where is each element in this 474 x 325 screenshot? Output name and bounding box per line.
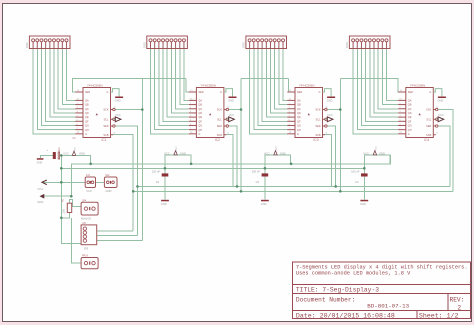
svg-text:100 nF: 100 nF	[152, 170, 161, 174]
svg-text:QE: QE	[85, 116, 89, 119]
svg-text:IC1: IC1	[102, 138, 107, 142]
svg-text:5: 5	[369, 46, 370, 48]
supply symbol VCC at IC3	[325, 113, 333, 122]
svg-text:9: 9	[183, 46, 184, 48]
wire IC2 SER feed	[142, 78, 186, 80]
svg-text:BD-801-07-13: BD-801-07-13	[367, 303, 409, 310]
solder jumper SJ1 VCC	[85, 174, 95, 193]
resistor R1 22k	[61, 198, 71, 213]
svg-text:QC: QC	[408, 108, 412, 111]
svg-text:1: 1	[352, 46, 353, 48]
svg-text:14: 14	[77, 90, 79, 92]
svg-text:8: 8	[278, 46, 279, 48]
wire I2C pin1	[97, 230, 134, 232]
svg-text:ANALOG: ANALOG	[81, 217, 91, 220]
shift register IC1 74HC595N	[75, 83, 115, 142]
svg-text:SCL: SCL	[217, 118, 222, 121]
svg-text:SER: SER	[217, 125, 222, 128]
svg-text:SCK: SCK	[103, 109, 108, 112]
svg-text:QD: QD	[408, 112, 412, 115]
svg-text:SER: SER	[198, 91, 203, 94]
svg-text:7: 7	[175, 46, 176, 48]
supply symbol VCC block4	[363, 146, 385, 156]
svg-text:G: G	[220, 91, 222, 94]
wire power hookup block3	[265, 155, 291, 168]
supply symbol VCC block3	[264, 146, 286, 156]
off-page arrow GND	[37, 194, 44, 204]
title block	[293, 262, 471, 319]
svg-text:IC3: IC3	[314, 138, 319, 142]
ground symbol GND under C3	[261, 200, 269, 206]
svg-text:QH: QH	[297, 129, 301, 132]
svg-text:9: 9	[66, 46, 67, 48]
svg-text:GND: GND	[106, 189, 112, 193]
off-page arrow VCC	[38, 180, 47, 191]
svg-text:SCL: SCL	[104, 118, 109, 121]
svg-text:I2C: I2C	[83, 222, 87, 225]
jumper PP14	[81, 255, 98, 269]
svg-text:3: 3	[257, 46, 258, 48]
wire I2C pin3	[97, 240, 143, 242]
svg-text:G: G	[107, 91, 109, 94]
connector SV3 pin header	[242, 36, 287, 49]
svg-text:GND: GND	[180, 151, 186, 155]
svg-text:3: 3	[158, 46, 159, 48]
supply symbol VCC block2	[164, 146, 186, 156]
svg-text:VCC: VCC	[276, 146, 278, 151]
ground symbol GND at C1	[37, 158, 44, 164]
svg-text:6: 6	[373, 46, 374, 48]
svg-text:JP4: JP4	[82, 199, 87, 202]
wire R1 top to JP4	[70, 200, 82, 207]
svg-text:QG: QG	[198, 125, 202, 128]
svg-text:3: 3	[361, 46, 362, 48]
svg-text:+: +	[46, 148, 48, 152]
wire IC1 SCK out	[115, 109, 142, 111]
svg-text:QA: QA	[408, 100, 412, 103]
svg-text:QB: QB	[297, 104, 301, 107]
svg-text:SER: SER	[315, 125, 320, 128]
svg-text:SER: SER	[297, 91, 302, 94]
svg-text:SCK: SCK	[426, 109, 431, 112]
wire C1 to GND	[40, 155, 53, 158]
svg-text:SER: SER	[408, 91, 413, 94]
svg-text:14: 14	[400, 90, 402, 92]
svg-text:11: 11	[326, 133, 328, 135]
wire bundle SV2 to IC2	[151, 49, 189, 134]
solder jumper SJ2 GND	[104, 174, 117, 193]
svg-text:QA: QA	[297, 100, 301, 103]
supply symbol VCC at IC1	[113, 113, 121, 122]
svg-text:G: G	[408, 133, 410, 136]
svg-text:GND: GND	[37, 200, 43, 204]
svg-text:VCC: VCC	[376, 146, 378, 151]
svg-text:QB: QB	[408, 104, 412, 107]
svg-text:2: 2	[457, 304, 461, 311]
svg-text:Sheet: 1/2: Sheet: 1/2	[419, 312, 459, 319]
wire chain vertical V109 gap1	[141, 79, 143, 241]
svg-text:7: 7	[377, 46, 378, 48]
svg-text:4: 4	[261, 46, 262, 48]
wire I2C pin2	[97, 235, 138, 237]
ground symbol GND under C2	[161, 200, 169, 206]
wire IC2 SER stub	[186, 79, 197, 92]
svg-text:5: 5	[266, 46, 267, 48]
connector SV4 pin header	[345, 36, 390, 49]
svg-text:DIS1: DIS1	[25, 42, 29, 48]
svg-text:100 nF: 100 nF	[252, 170, 261, 174]
svg-text:SCB: SCB	[426, 134, 431, 137]
supply symbol VCC at IC4	[436, 113, 444, 122]
svg-text:SCK: SCK	[315, 109, 320, 112]
svg-text:2: 2	[356, 46, 357, 48]
svg-text:VCC: VCC	[75, 146, 77, 151]
svg-text:VCC: VCC	[164, 151, 170, 155]
shift register IC4 74HC595N	[398, 83, 438, 142]
wire IC2 QH* out	[226, 135, 232, 187]
svg-text:7: 7	[57, 46, 58, 48]
ground symbol GND under C4	[360, 200, 368, 206]
svg-text:14: 14	[289, 90, 291, 92]
svg-text:G: G	[319, 91, 321, 94]
svg-text:SCL: SCL	[316, 118, 321, 121]
svg-text:QF: QF	[198, 120, 202, 123]
svg-text:74*HC595N: 74*HC595N	[410, 83, 425, 87]
wire net QH1 to IC2 SER	[241, 78, 288, 80]
svg-text:SCB: SCB	[315, 134, 320, 137]
wire chain vertical V109 gap2	[240, 79, 242, 192]
wire chain vertical V109 gap3	[339, 79, 341, 192]
svg-text:4: 4	[162, 46, 163, 48]
svg-text:IC2: IC2	[215, 138, 220, 142]
svg-text:GND: GND	[228, 98, 234, 102]
ground symbol GND at IC4	[433, 89, 446, 103]
svg-text:4: 4	[45, 46, 46, 48]
svg-text:QE: QE	[297, 116, 301, 119]
svg-text:IC4: IC4	[424, 138, 429, 142]
svg-text:G: G	[297, 133, 299, 136]
svg-text:6: 6	[270, 46, 271, 48]
svg-text:SCL: SCL	[426, 118, 431, 121]
svg-text:QB: QB	[198, 104, 202, 107]
svg-text:74*HC595N: 74*HC595N	[200, 83, 215, 87]
wire R1 bottom jog	[61, 213, 69, 218]
svg-text:QC: QC	[297, 108, 301, 111]
svg-text:1: 1	[249, 46, 250, 48]
svg-text:SJ1: SJ1	[86, 174, 91, 177]
svg-text:DIS3: DIS3	[242, 42, 246, 48]
svg-text:GND: GND	[79, 151, 85, 155]
svg-text:22k: 22k	[61, 209, 65, 214]
svg-text:QA: QA	[85, 100, 89, 103]
svg-text:QH: QH	[408, 129, 412, 132]
wire bundle SV3 to IC3	[250, 49, 288, 134]
svg-text:C3: C3	[256, 180, 260, 184]
capacitor C3 leads	[264, 168, 266, 173]
wire power hookup block4	[364, 155, 390, 168]
wire IC4 SCK out	[438, 110, 453, 192]
svg-text:Date: 20/01/2015 16:08:48: Date: 20/01/2015 16:08:48	[296, 312, 395, 319]
svg-text:QG: QG	[297, 125, 301, 128]
svg-text:C4: C4	[355, 180, 359, 184]
svg-text:GND: GND	[115, 98, 121, 102]
net bus line3	[138, 185, 450, 187]
svg-text:1: 1	[150, 46, 151, 48]
svg-text:VCC: VCC	[229, 113, 235, 117]
svg-text:REV:: REV:	[450, 296, 465, 303]
svg-text:GND: GND	[161, 202, 167, 206]
svg-text:G: G	[429, 91, 431, 94]
svg-text:VCC: VCC	[38, 187, 44, 191]
wire SJ1 to SJ2	[96, 181, 105, 183]
svg-text:2: 2	[253, 46, 254, 48]
svg-text:QD: QD	[297, 112, 301, 115]
capacitor C1 electrolytic	[46, 137, 76, 159]
svg-text:QC: QC	[85, 108, 89, 111]
svg-text:VCC: VCC	[264, 151, 270, 155]
svg-text:4: 4	[365, 46, 366, 48]
supply symbol VCC block1	[63, 146, 85, 155]
svg-text:SER: SER	[426, 125, 431, 128]
svg-text:5: 5	[166, 46, 167, 48]
svg-text:8: 8	[179, 46, 180, 48]
svg-text:QF: QF	[85, 120, 89, 123]
svg-text:VCC: VCC	[176, 146, 178, 151]
wire power hookup block2	[165, 155, 191, 168]
wire GND arrow line	[44, 195, 71, 197]
capacitor C4 leads	[363, 168, 365, 173]
svg-text:QD: QD	[198, 112, 202, 115]
svg-text:GND: GND	[37, 161, 43, 165]
svg-text:QH: QH	[85, 129, 89, 132]
wire IC1 SER out	[115, 126, 137, 236]
svg-text:8: 8	[382, 46, 383, 48]
svg-text:QD: QD	[85, 112, 89, 115]
svg-text:JP5: JP5	[84, 247, 89, 250]
svg-text:74*HC595N: 74*HC595N	[299, 83, 314, 87]
svg-text:VCC: VCC	[86, 189, 92, 193]
connector SV2 pin header	[143, 36, 188, 49]
supply symbol VCC at IC2	[226, 113, 234, 122]
svg-text:3: 3	[41, 46, 42, 48]
capacitor C3 100nF	[252, 170, 269, 184]
svg-text:QG: QG	[408, 125, 412, 128]
svg-text:VCC: VCC	[63, 151, 69, 155]
svg-text:74*HC595N: 74*HC595N	[87, 83, 102, 87]
wire bundle SV4 to IC4	[353, 49, 398, 134]
wire IC1 QH* out	[113, 135, 133, 231]
svg-text:PP14: PP14	[82, 255, 89, 258]
wire node to PP14	[72, 218, 81, 263]
title block text	[296, 265, 468, 320]
wire IC3 SCK out	[327, 109, 340, 111]
svg-text:12: 12	[326, 107, 328, 109]
svg-text:9: 9	[282, 46, 283, 48]
svg-text:1: 1	[32, 46, 33, 48]
svg-text:QE: QE	[198, 116, 202, 119]
wire net QH3 to IC4 SER	[340, 79, 406, 92]
svg-text:12: 12	[227, 107, 229, 109]
svg-text:DIS4: DIS4	[345, 42, 349, 48]
wire IC3 QH* out	[325, 135, 331, 187]
connector I2C header JP5	[81, 222, 97, 250]
wire IC2 SCK out	[229, 109, 242, 111]
svg-text:QC: QC	[198, 108, 202, 111]
shift register IC3 74HC595N	[287, 83, 327, 142]
svg-text:10uF: 10uF	[58, 146, 61, 152]
svg-text:2: 2	[36, 46, 37, 48]
svg-text:14: 14	[190, 90, 192, 92]
svg-text:12: 12	[436, 107, 438, 109]
svg-text:G: G	[85, 133, 87, 136]
svg-text:11: 11	[114, 133, 116, 135]
svg-text:GND: GND	[438, 98, 444, 102]
ground symbol GND at IC2	[224, 89, 237, 103]
svg-text:GND: GND	[360, 202, 366, 206]
shift register IC2 74HC595N	[189, 83, 229, 142]
svg-text:6: 6	[171, 46, 172, 48]
wire IC4 SER out	[438, 126, 450, 186]
svg-text:GND: GND	[327, 98, 333, 102]
svg-text:VCC: VCC	[438, 113, 444, 117]
svg-text:SCB: SCB	[103, 134, 108, 137]
svg-text:SCK: SCK	[217, 109, 222, 112]
svg-text:VCC: VCC	[327, 113, 333, 117]
svg-text:VCC: VCC	[115, 113, 121, 117]
net bus line1 GND	[71, 155, 390, 196]
svg-text:QA: QA	[198, 100, 202, 103]
svg-text:8: 8	[62, 46, 63, 48]
net bus line4	[133, 190, 453, 192]
svg-text:QB: QB	[85, 104, 89, 107]
svg-text:QG: QG	[85, 125, 89, 128]
wire VCC arrow line	[43, 181, 85, 183]
svg-text:100 nF: 100 nF	[351, 170, 360, 174]
svg-text:QE: QE	[408, 116, 412, 119]
svg-text:SJ2: SJ2	[105, 174, 110, 177]
wire left column node	[61, 155, 81, 243]
net bus line2 VCC	[61, 167, 364, 169]
svg-text:VCC: VCC	[363, 151, 369, 155]
svg-text:12: 12	[114, 107, 116, 109]
svg-text:DIS2: DIS2	[143, 42, 147, 48]
wire bundle SV1 to IC1	[33, 49, 75, 134]
svg-text:SCB: SCB	[217, 134, 222, 137]
wire IC3 SER stub	[288, 79, 295, 92]
wire net SER feed IC1	[73, 79, 143, 92]
svg-text:SER: SER	[103, 125, 108, 128]
svg-text:G: G	[198, 133, 200, 136]
svg-text:SER: SER	[85, 91, 90, 94]
svg-text:GND: GND	[379, 151, 385, 155]
svg-text:6: 6	[53, 46, 54, 48]
svg-text:Uses common-anode LED modules,: Uses common-anode LED modules, 1.8 V	[296, 270, 411, 276]
svg-text:TITLE: 7-Seg-Display-3: TITLE: 7-Seg-Display-3	[296, 287, 379, 294]
svg-text:11: 11	[227, 133, 229, 135]
svg-text:Document Number:: Document Number:	[296, 296, 355, 303]
svg-text:7: 7	[274, 46, 275, 48]
svg-text:C2: C2	[156, 180, 160, 184]
capacitor C4 100nF	[351, 170, 368, 184]
capacitor C2 leads	[164, 168, 166, 173]
svg-text:11: 11	[436, 133, 438, 135]
svg-text:GND: GND	[261, 202, 267, 206]
ground symbol GND at IC3	[323, 89, 336, 103]
ground symbol GND at IC1	[111, 89, 124, 103]
wire IC2 SER out	[229, 126, 238, 186]
svg-text:9: 9	[386, 46, 387, 48]
capacitor C2 100nF	[152, 170, 169, 184]
svg-text:GND: GND	[280, 151, 286, 155]
svg-text:2: 2	[154, 46, 155, 48]
wire IC3 SER out	[327, 126, 336, 186]
svg-text:QH: QH	[198, 129, 202, 132]
wire power hookup block1	[59, 155, 90, 163]
svg-text:QF: QF	[297, 120, 301, 123]
jumper JP4 analog	[81, 199, 98, 220]
connector SV1 pin header	[25, 36, 70, 49]
svg-text:5: 5	[49, 46, 50, 48]
junction dots	[60, 108, 366, 219]
svg-text:QF: QF	[408, 120, 412, 123]
